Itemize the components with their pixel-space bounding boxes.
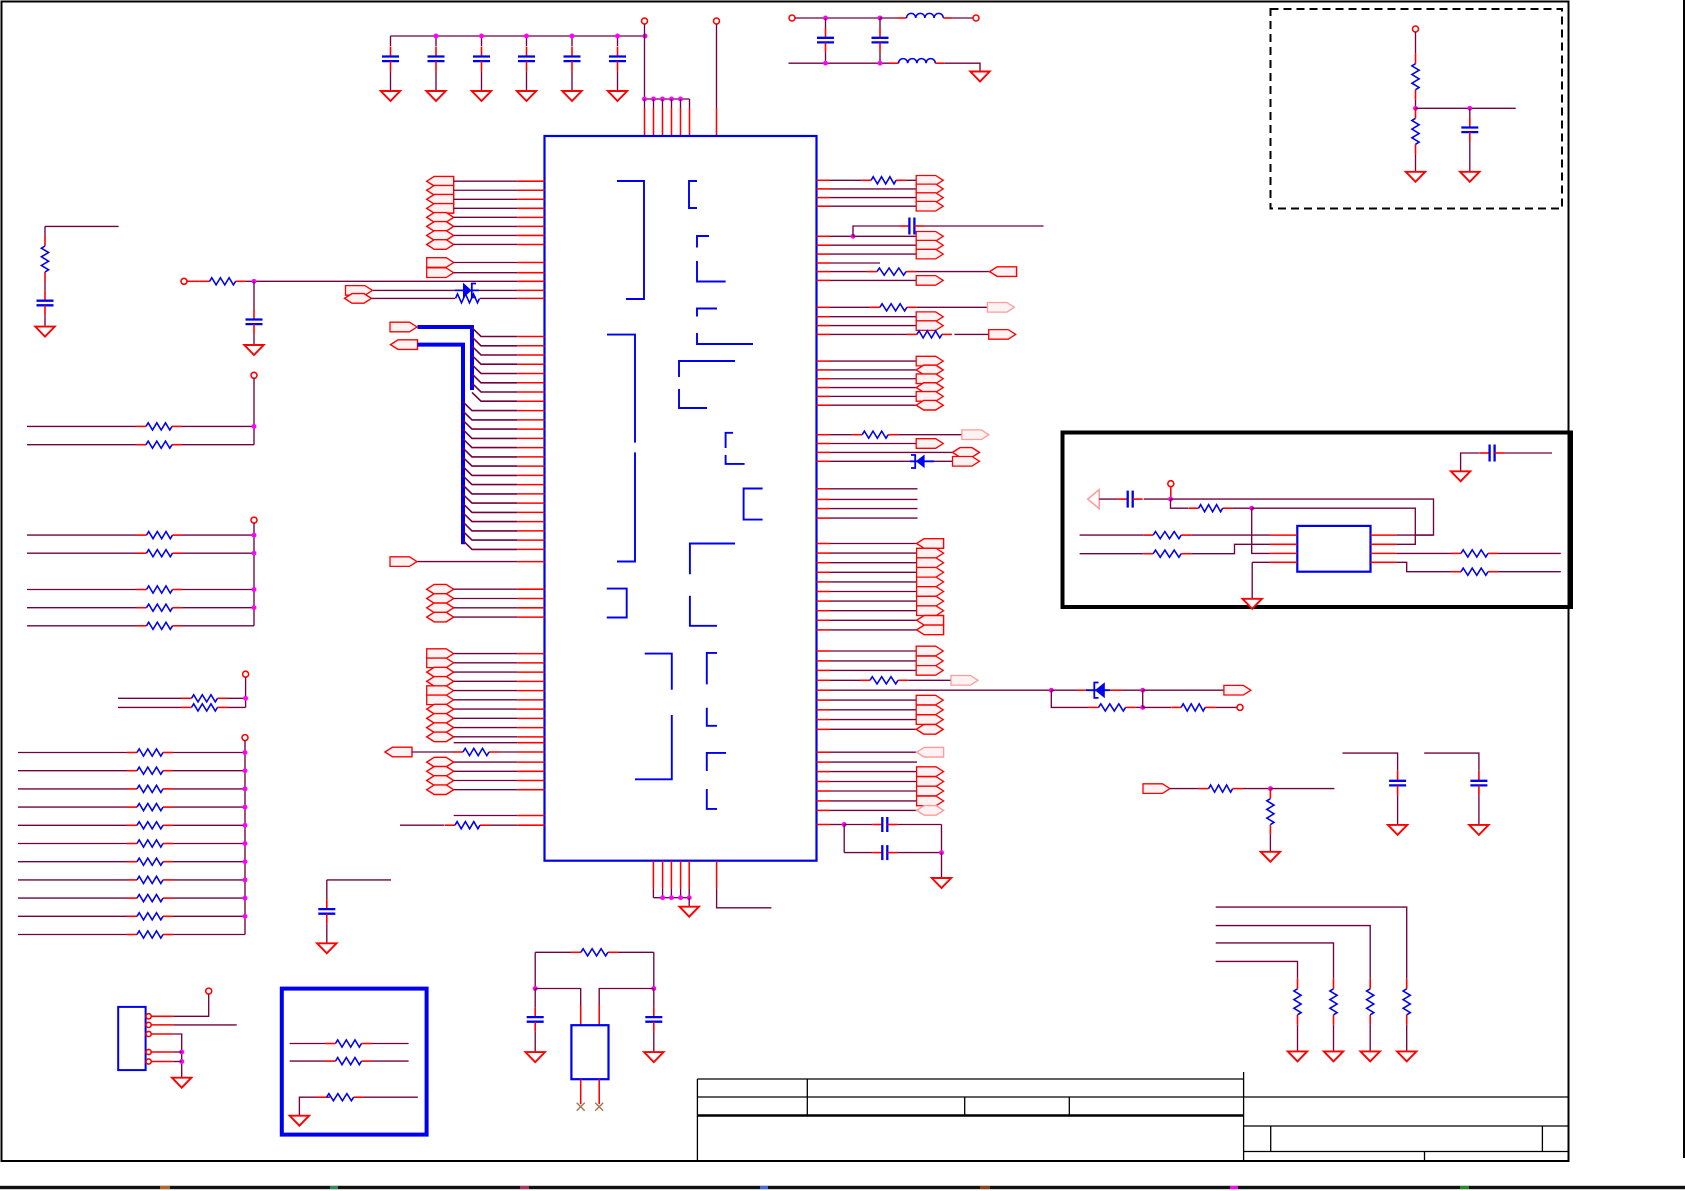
wire IC pin bbox=[517, 588, 544, 590]
wire IC pin bbox=[517, 539, 544, 541]
ground bbox=[1243, 599, 1262, 609]
wire bbox=[830, 761, 917, 763]
wire stub bbox=[327, 879, 391, 881]
pin-group bracket bbox=[690, 544, 735, 626]
flag port bbox=[427, 704, 454, 714]
resistor R16 bbox=[317, 1096, 327, 1098]
wire IC pin bbox=[817, 404, 831, 406]
wire IC pin bbox=[817, 443, 831, 445]
wire bbox=[534, 989, 536, 1008]
flag port bbox=[1143, 784, 1170, 794]
capacitor C7 bbox=[825, 28, 827, 38]
wire IC pin bbox=[517, 391, 544, 393]
wire bbox=[390, 36, 392, 46]
wire bbox=[830, 188, 916, 190]
wire IC pin bbox=[1270, 534, 1297, 536]
wire bbox=[173, 861, 245, 863]
wire IC pin bbox=[517, 708, 544, 710]
bus entry wire bbox=[463, 541, 517, 550]
resistor R4 bbox=[200, 280, 210, 282]
resistor R20 bbox=[127, 806, 137, 808]
flag port bbox=[953, 457, 980, 467]
wire bbox=[173, 752, 245, 754]
bus wire (thick) bbox=[418, 327, 473, 390]
wire bbox=[454, 588, 518, 590]
junction bbox=[651, 986, 656, 991]
bus entry wire bbox=[463, 467, 517, 476]
wire bbox=[830, 262, 880, 264]
resistor R6 bbox=[861, 179, 871, 181]
resistor R18 bbox=[127, 770, 137, 772]
junction bbox=[252, 424, 257, 429]
resistor R23 bbox=[1189, 507, 1199, 509]
ground bbox=[1261, 852, 1280, 862]
bus entry wire bbox=[472, 392, 517, 401]
bus entry wire bbox=[472, 328, 517, 337]
wire IC pin bbox=[517, 189, 544, 191]
junction bbox=[878, 16, 883, 21]
wire bbox=[952, 17, 973, 19]
resistor R18 bbox=[1269, 789, 1271, 799]
wire bbox=[1469, 142, 1471, 172]
flag port bbox=[917, 767, 944, 777]
flag port bbox=[427, 194, 454, 204]
bus entry wire bbox=[463, 522, 517, 531]
wire bbox=[151, 1015, 173, 1017]
wire bbox=[830, 395, 916, 397]
wire bbox=[526, 71, 528, 91]
wire bbox=[454, 780, 518, 782]
wire bbox=[830, 333, 907, 335]
bus entry wire bbox=[463, 531, 517, 540]
resistor R25 bbox=[127, 897, 137, 899]
wire IC pin bbox=[817, 325, 831, 327]
wire IC pin bbox=[817, 689, 831, 691]
wire bbox=[906, 179, 916, 181]
pin-group bracket bbox=[689, 181, 697, 208]
wire IC ground pin bbox=[662, 861, 664, 889]
capacitor C20 bbox=[1480, 452, 1490, 454]
wire bbox=[253, 281, 255, 309]
pin-group bracket bbox=[679, 361, 735, 408]
flag port bbox=[917, 558, 944, 568]
flag port bbox=[427, 231, 454, 241]
wire IC pin bbox=[817, 809, 831, 811]
wire bbox=[173, 1051, 182, 1053]
flag port bbox=[346, 286, 373, 296]
wire bbox=[580, 1005, 582, 1025]
wire bbox=[917, 306, 988, 308]
wire bbox=[183, 589, 255, 591]
resistor R17 bbox=[127, 752, 137, 754]
resistor R23 bbox=[127, 861, 137, 863]
wire bbox=[844, 852, 872, 854]
wire bbox=[454, 662, 518, 664]
wire stub bbox=[717, 888, 772, 907]
resistor R9 bbox=[907, 333, 917, 335]
wire bbox=[534, 1032, 536, 1052]
wire bbox=[44, 315, 46, 326]
wire bbox=[454, 699, 518, 701]
wire bbox=[1136, 706, 1143, 708]
wire bbox=[290, 1060, 326, 1062]
dashed enclosure box bbox=[1271, 9, 1563, 209]
wire bbox=[45, 225, 119, 227]
wire bbox=[830, 543, 917, 545]
wire bbox=[534, 952, 536, 988]
wire bbox=[830, 197, 916, 199]
wire IC pin bbox=[517, 262, 544, 264]
wire IC pin bbox=[817, 333, 831, 335]
wire IC pin bbox=[817, 600, 831, 602]
flag port bbox=[989, 330, 1016, 340]
resistor R2 divider bottom bbox=[1415, 108, 1417, 118]
wire bbox=[454, 789, 518, 791]
resistor R16 bbox=[182, 706, 192, 708]
flag port bbox=[917, 747, 944, 757]
wire bbox=[830, 781, 917, 783]
no-connect mark bbox=[577, 1103, 585, 1111]
resistor R8 bbox=[136, 425, 146, 427]
terminal bbox=[973, 15, 979, 21]
junction bbox=[678, 895, 683, 900]
wire bbox=[173, 897, 245, 899]
wire IC power pin bbox=[653, 99, 655, 108]
wire IC pin bbox=[517, 511, 544, 513]
wire IC pin bbox=[817, 543, 831, 545]
wire bbox=[830, 369, 916, 371]
wire IC pin bbox=[817, 488, 831, 490]
resistor R25 bbox=[1143, 553, 1153, 555]
wire IC pin bbox=[517, 671, 544, 673]
wire IC pin bbox=[817, 306, 831, 308]
junction bbox=[669, 97, 674, 102]
wire bbox=[173, 788, 245, 790]
ground bbox=[1397, 1051, 1416, 1061]
flag port bbox=[916, 400, 943, 410]
flag port bbox=[916, 276, 943, 286]
flag port bbox=[916, 666, 943, 676]
wire bbox=[173, 1061, 182, 1063]
ground bbox=[526, 1052, 545, 1062]
junction bbox=[179, 1059, 184, 1064]
resistor R7 bbox=[867, 271, 877, 273]
wire bbox=[1110, 689, 1122, 691]
wire IC pin bbox=[517, 354, 544, 356]
junction bbox=[1249, 506, 1254, 511]
wire bbox=[173, 770, 245, 772]
bus entry wire bbox=[472, 374, 517, 383]
wire IC pin bbox=[517, 272, 544, 274]
wire bbox=[18, 770, 127, 772]
wire bbox=[825, 52, 827, 63]
wire IC pin bbox=[1371, 534, 1397, 536]
wire bus bbox=[253, 378, 255, 444]
terminal bbox=[789, 15, 795, 21]
wire bbox=[1269, 835, 1271, 852]
wire bus bbox=[244, 741, 246, 935]
bus entry wire bbox=[463, 411, 517, 420]
resistor R44 bbox=[1369, 979, 1371, 989]
flag bus port bbox=[390, 322, 417, 332]
pin-group bracket bbox=[707, 753, 726, 771]
wire crystal pin bbox=[580, 1079, 582, 1104]
wire bbox=[479, 289, 517, 291]
wire bbox=[825, 18, 827, 28]
wire bbox=[490, 824, 517, 826]
wire bbox=[18, 806, 127, 808]
wire IC power pin bbox=[662, 99, 664, 108]
wire bbox=[18, 824, 127, 826]
bus wire (thick) bbox=[418, 345, 464, 545]
wire IC pin bbox=[817, 562, 831, 564]
wire IC pin bbox=[517, 493, 544, 495]
wire bbox=[454, 742, 518, 744]
bus entry wire bbox=[463, 448, 517, 457]
flag port bbox=[916, 312, 943, 322]
ground bbox=[172, 1078, 191, 1088]
wire bbox=[151, 1051, 173, 1053]
pin-group bracket bbox=[744, 489, 763, 520]
ground bbox=[35, 327, 54, 337]
flag port bbox=[916, 249, 943, 259]
wire IC pin bbox=[517, 521, 544, 523]
junction bbox=[243, 823, 248, 828]
wire IC pin bbox=[517, 770, 544, 772]
wire loop bbox=[1051, 690, 1088, 707]
junction bbox=[434, 34, 439, 39]
wire bbox=[18, 861, 127, 863]
wire bbox=[830, 660, 916, 662]
inductor L1 bbox=[898, 17, 907, 19]
wire IC pin bbox=[517, 180, 544, 182]
wire bbox=[454, 671, 518, 673]
wire bbox=[830, 517, 918, 519]
wire bbox=[1144, 498, 1171, 500]
junction bbox=[252, 533, 257, 538]
wire IC pin bbox=[517, 297, 544, 299]
wire bbox=[1191, 534, 1270, 536]
wire IC pin bbox=[817, 360, 831, 362]
junction bbox=[243, 859, 248, 864]
junction bbox=[669, 895, 674, 900]
resistor R9 bbox=[136, 444, 146, 446]
flag port (open arrow) bbox=[1088, 490, 1100, 509]
bus entry wire bbox=[463, 402, 517, 411]
wire bbox=[644, 24, 646, 99]
junction bbox=[615, 34, 620, 39]
ground bbox=[290, 1116, 309, 1126]
wire bbox=[27, 589, 137, 591]
junction bbox=[533, 986, 538, 991]
wire bbox=[571, 71, 573, 91]
wire IC pin bbox=[517, 653, 544, 655]
flag port bbox=[427, 612, 454, 622]
flag port bbox=[427, 213, 454, 223]
wire IC pin bbox=[1270, 552, 1297, 554]
wire bbox=[1478, 795, 1480, 825]
wire bbox=[372, 297, 456, 299]
wire bbox=[454, 727, 518, 729]
wire IC pin bbox=[517, 789, 544, 791]
flag port bbox=[917, 606, 944, 616]
flag port bbox=[916, 232, 943, 242]
pin-group bracket bbox=[635, 654, 672, 780]
junction bbox=[939, 850, 944, 855]
wire IC pin bbox=[817, 508, 831, 510]
wire bbox=[1171, 499, 1434, 535]
wire bbox=[830, 271, 867, 273]
flag port bbox=[427, 594, 454, 604]
wire bbox=[853, 235, 916, 237]
wire bbox=[1099, 498, 1118, 500]
wire bbox=[1415, 100, 1417, 109]
wire bbox=[830, 809, 917, 811]
wire bbox=[454, 616, 518, 618]
wire bbox=[598, 1005, 600, 1025]
resistor R24 bbox=[127, 879, 137, 881]
flag port bbox=[427, 723, 454, 733]
wire bbox=[454, 180, 518, 182]
flag port bbox=[916, 715, 943, 725]
wire IC pin bbox=[517, 465, 544, 467]
wire bbox=[418, 561, 518, 563]
flag port bbox=[427, 658, 454, 668]
wire IC pin bbox=[517, 699, 544, 701]
wire bbox=[173, 824, 245, 826]
wire bbox=[27, 607, 137, 609]
junction bbox=[1168, 497, 1173, 502]
wire IC ground pin bbox=[680, 861, 682, 889]
wire bbox=[454, 708, 518, 710]
wire bbox=[844, 824, 872, 826]
junction bbox=[243, 768, 248, 773]
flag port bbox=[427, 785, 454, 795]
wire bbox=[1216, 961, 1298, 978]
flag port bbox=[916, 365, 943, 375]
wire bbox=[897, 824, 941, 826]
wire bbox=[944, 63, 980, 71]
wire bbox=[830, 824, 844, 826]
bus entry wire bbox=[472, 383, 517, 392]
wire IC pin bbox=[817, 244, 831, 246]
terminal bbox=[1413, 26, 1419, 32]
flag port bbox=[916, 184, 943, 194]
wire bbox=[571, 36, 573, 46]
wire IC pin bbox=[817, 650, 831, 652]
wire bbox=[400, 824, 445, 826]
wire bbox=[853, 226, 899, 236]
wire bbox=[18, 897, 127, 899]
wire bbox=[1170, 788, 1199, 790]
pin-group bracket bbox=[726, 433, 745, 464]
wire bbox=[18, 934, 127, 936]
flag port bbox=[1224, 685, 1251, 695]
wire bbox=[954, 333, 988, 335]
wire bbox=[830, 325, 916, 327]
terminal pull bus D bbox=[251, 517, 257, 523]
flag port bbox=[990, 267, 1017, 277]
resistor R10 bbox=[137, 534, 147, 536]
wire IC pin bbox=[1270, 561, 1297, 563]
wire bbox=[1191, 544, 1270, 553]
bus entry wire bbox=[463, 457, 517, 466]
wire bbox=[830, 434, 852, 436]
resistor R19 bbox=[127, 788, 137, 790]
bus entry wire bbox=[463, 485, 517, 494]
wire bbox=[535, 989, 581, 1006]
wire bbox=[228, 697, 246, 699]
bus entry wire bbox=[472, 355, 517, 364]
flag port bbox=[916, 646, 943, 656]
flag port bbox=[427, 185, 454, 195]
wire bbox=[364, 1096, 418, 1098]
wire IC pin bbox=[817, 279, 831, 281]
flag port bbox=[916, 201, 943, 211]
title block (left) bbox=[697, 1079, 1243, 1161]
wire bus bbox=[245, 677, 247, 707]
junction bbox=[651, 97, 656, 102]
capacitor C17 bbox=[326, 899, 328, 909]
wire IC pin bbox=[517, 742, 544, 744]
junction bbox=[243, 805, 248, 810]
wire IC pin bbox=[817, 824, 831, 826]
diode D3 zener bbox=[1086, 682, 1110, 698]
flag port bbox=[390, 557, 417, 567]
wire bbox=[1333, 1025, 1335, 1052]
wire IC pin bbox=[817, 235, 831, 237]
flag port bbox=[917, 625, 944, 635]
wire IC pin bbox=[517, 717, 544, 719]
pin-group bracket bbox=[617, 181, 644, 299]
resistor R3 bbox=[44, 236, 46, 246]
wire bbox=[830, 253, 916, 255]
capacitor C14 bbox=[872, 852, 882, 854]
wire bbox=[1461, 453, 1480, 471]
flag port bbox=[345, 294, 372, 304]
wire bbox=[653, 897, 689, 899]
wire IC ground pin bbox=[670, 861, 672, 889]
wire IC pin bbox=[517, 198, 544, 200]
wire IC pin bbox=[817, 619, 831, 621]
terminal bbox=[1237, 704, 1243, 710]
wire IC pin bbox=[817, 771, 831, 773]
wire bbox=[830, 650, 916, 652]
wire IC pin bbox=[817, 434, 831, 436]
wire bbox=[830, 699, 916, 701]
junction bbox=[570, 34, 575, 39]
wire bbox=[830, 306, 870, 308]
wire IC pin bbox=[517, 345, 544, 347]
wire bbox=[830, 709, 916, 711]
pin-group bracket bbox=[707, 789, 717, 809]
wire IC pin bbox=[817, 660, 831, 662]
wire bbox=[1424, 753, 1479, 771]
wire IC pin bbox=[517, 225, 544, 227]
wire bbox=[830, 508, 918, 510]
pin-group bracket bbox=[607, 589, 627, 618]
wire bbox=[412, 751, 453, 753]
wire bbox=[830, 378, 916, 380]
bus entry wire bbox=[463, 439, 517, 448]
wire bbox=[830, 205, 916, 207]
wire bbox=[151, 1024, 173, 1026]
wire IC power pin bbox=[644, 99, 646, 108]
wire bbox=[27, 534, 137, 536]
wire bbox=[182, 444, 254, 446]
wire IC pin bbox=[517, 382, 544, 384]
capacitor C18 bbox=[1397, 771, 1399, 781]
